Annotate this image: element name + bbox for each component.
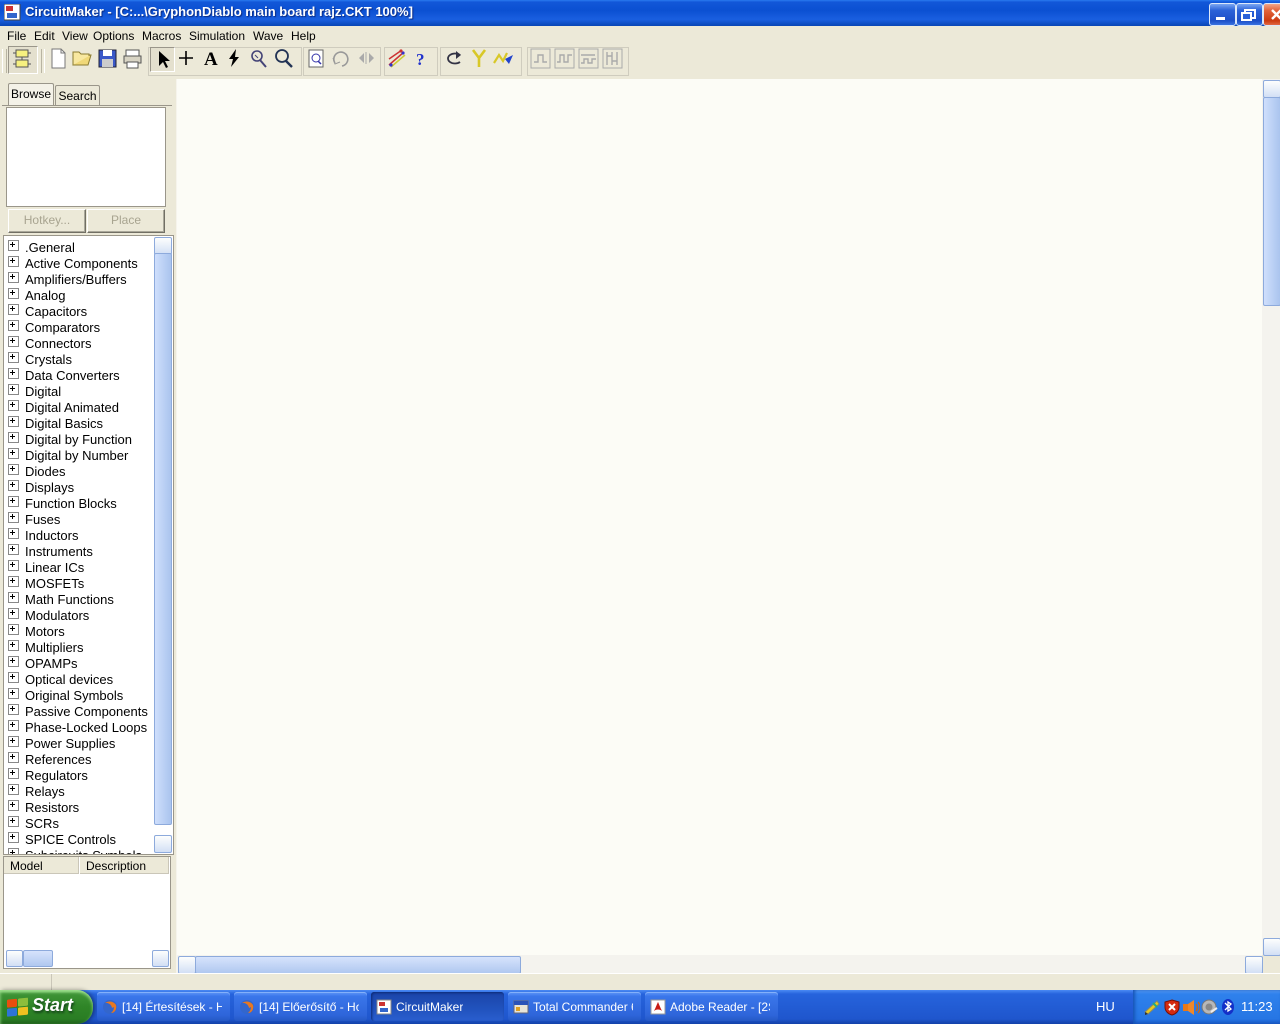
horizontal scrollbar — [177, 955, 1262, 973]
svg-text:A: A — [204, 49, 218, 70]
table hscroll — [6, 950, 23, 967]
svg-text:?: ? — [416, 50, 425, 69]
vertical scrollbar — [1262, 79, 1280, 955]
start button — [0, 990, 93, 1024]
grip — [2, 49, 7, 73]
